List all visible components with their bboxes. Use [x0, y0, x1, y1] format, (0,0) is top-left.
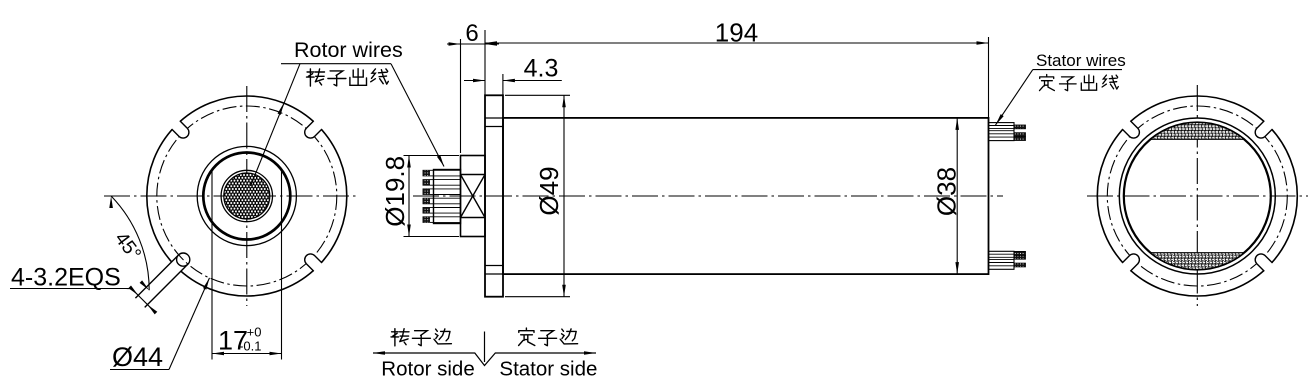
dim line dia38 — [956, 118, 958, 274]
svg-text:4-3.2EQS: 4-3.2EQS — [11, 264, 121, 292]
svg-text:Rotor side: Rotor side — [381, 358, 474, 381]
dim line 17 — [212, 353, 282, 355]
stator wire bundle 2 — [989, 251, 1015, 269]
node: outer flange circle — [147, 96, 347, 296]
flange step lines — [485, 117, 503, 119]
arrow dia19.8 top — [407, 156, 411, 168]
left view: front view of rotor-side flange — [10, 86, 357, 372]
underline dia44 — [110, 369, 169, 371]
label cjk stator-wires char 2 — [1060, 77, 1077, 91]
node: bore circle inner — [1124, 123, 1271, 270]
arrow dia44 — [203, 278, 210, 290]
arrow rotor wires 1 — [437, 155, 444, 167]
arrow rotor side left — [373, 351, 385, 355]
svg-text:4.3: 4.3 — [524, 55, 559, 83]
underline Stator wires — [1033, 69, 1122, 71]
node: inner ring circle — [221, 170, 272, 221]
label cjk rotor-side char 3 — [434, 329, 451, 344]
slot side lower — [145, 264, 188, 307]
arrow rotor wires 2 at outer circle — [278, 103, 284, 115]
arrow slot width lower — [148, 305, 158, 315]
svg-text:Rotor wires: Rotor wires — [294, 38, 403, 62]
svg-text:Ø19.8: Ø19.8 — [380, 156, 410, 227]
arrow dia19.8 bottom — [407, 225, 411, 237]
slot side upper — [135, 255, 178, 298]
svg-text:-0.1: -0.1 — [239, 339, 261, 354]
leader rotor wires to connector — [391, 64, 444, 167]
arrow stator side right — [584, 351, 596, 355]
divider vertical line — [484, 332, 486, 363]
slot feature 4-3.2EQS at 225deg — [142, 257, 185, 300]
arrow 17 left — [212, 352, 224, 356]
leader rotor wires to left view — [251, 64, 301, 186]
notches right view — [1255, 118, 1275, 138]
wire: vertical centerline right view — [1196, 85, 1198, 306]
arrow dia38 bottom — [955, 262, 959, 274]
underline Rotor wires — [281, 63, 391, 65]
underline 4-3.2EQS — [10, 288, 126, 290]
ext line dia49 bottom — [505, 296, 570, 298]
dim ext line 17 right — [281, 170, 283, 360]
ext line 6 left — [460, 39, 462, 153]
arrow 194 left — [485, 41, 497, 45]
dim line across slot — [132, 289, 155, 312]
rotor pin 2 — [423, 180, 434, 186]
cross diagonal 1 — [461, 175, 486, 218]
arrow 6 right — [485, 42, 497, 46]
ext line 6/194/4.3 — [484, 30, 486, 95]
svg-text:Ø38: Ø38 — [932, 167, 962, 216]
svg-text:Stator wires: Stator wires — [1036, 51, 1126, 70]
label cjk stator-side char 3 — [560, 329, 577, 344]
ext line dia19.8 bottom — [404, 236, 460, 238]
rotor pin 3 — [423, 189, 434, 195]
label cjk rotor-side char 1 — [391, 329, 409, 346]
arrow 194 right — [977, 41, 989, 45]
shaft block with cross — [461, 156, 486, 237]
dim line 4.3 tail right — [503, 80, 562, 82]
dim line 194 — [485, 42, 989, 44]
rotor pin 6 — [423, 217, 434, 223]
rotor connector body — [434, 170, 461, 224]
connector wire lines — [434, 169, 461, 171]
dim line 6 — [447, 43, 499, 45]
node: bore circle outer — [1119, 118, 1275, 274]
dim line dia19.8 — [408, 156, 410, 237]
leader 4-3.2EQS — [126, 288, 132, 290]
label cjk rotor-side char 2 — [412, 331, 430, 346]
rotor pin 4 — [423, 198, 434, 204]
notch top-right — [305, 118, 325, 138]
node: wire bundle hatched circle — [224, 173, 270, 219]
cross diagonal 2 — [461, 175, 486, 218]
main cylinder body — [503, 118, 989, 274]
svg-text:6: 6 — [465, 20, 478, 47]
notch top-left — [169, 118, 189, 138]
arrow stator wires — [996, 114, 1004, 125]
right view: stator-side front view — [1087, 85, 1308, 306]
svg-text:+0: +0 — [247, 325, 262, 340]
label cjk rotor-wires char 3 — [350, 69, 367, 86]
shaft block lower line — [461, 217, 486, 219]
arrow dia49 top — [562, 95, 566, 107]
arrow 4.3 right — [503, 79, 515, 83]
arrow 17 right — [270, 352, 282, 356]
ext line 194 right — [988, 37, 990, 117]
wire: centerline middle view — [413, 195, 1003, 197]
stator wire bundle 1 — [989, 123, 1015, 141]
shaft block upper line — [461, 174, 486, 176]
arrow 45 arc bottom — [140, 280, 150, 290]
node: circle d99 — [197, 146, 296, 245]
svg-text:194: 194 — [715, 18, 758, 48]
rotor/stator side divider label — [373, 332, 597, 381]
node: outer circle right view — [1097, 96, 1297, 296]
dim line 4.3 tail left — [464, 80, 485, 82]
dim line dia49 — [563, 95, 565, 296]
label cjk rotor-wires char 1 — [307, 69, 325, 86]
label cjk stator-wires char 1 — [1040, 75, 1055, 91]
label cjk stator-side char 2 — [539, 331, 557, 346]
rotor pin 5 — [423, 208, 434, 214]
label cjk stator-side char 1 — [519, 328, 535, 345]
ext line 4.3 right — [502, 74, 504, 95]
hatched segment top — [1151, 122, 1245, 139]
wire: horizontal centerline left view — [104, 195, 357, 197]
arrow dia49 bottom — [562, 285, 566, 297]
dim arc 45deg — [111, 196, 149, 290]
dim ext line 17 left — [211, 170, 213, 360]
svg-text:Ø44: Ø44 — [112, 342, 163, 372]
flange plate — [485, 95, 503, 296]
arrow dia38 top — [955, 118, 959, 130]
ext line dia49 top — [505, 94, 570, 96]
label cjk rotor-wires char 2 — [328, 71, 346, 86]
label cjk rotor-wires char 4 — [371, 69, 389, 84]
node: thick circle — [203, 153, 290, 240]
svg-text:Ø49: Ø49 — [534, 166, 564, 215]
arrow 4.3 left — [473, 79, 485, 83]
svg-text:Stator side: Stator side — [499, 358, 597, 381]
label cjk stator-wires char 3 — [1081, 75, 1096, 90]
leader stator wires — [996, 70, 1033, 126]
label cjk stator-wires char 4 — [1102, 75, 1118, 89]
wire: horizontal centerline right view — [1087, 195, 1308, 197]
arrow 6 left — [449, 42, 461, 46]
arrow slot width upper — [128, 286, 138, 296]
ext line dia19.8 top — [404, 155, 460, 157]
middle view: side view of slip ring body — [251, 18, 1026, 297]
rotor pin 1 — [423, 170, 434, 176]
hatched segment bottom — [1151, 253, 1245, 270]
wire: vertical centerline left view — [246, 86, 248, 306]
leader dia44 — [169, 278, 210, 370]
arrow 45 arc top — [109, 196, 113, 208]
node: bolt circle right view — [1107, 106, 1287, 286]
node: bolt circle dash-dot r90 — [157, 106, 337, 286]
notch bottom-right — [305, 254, 325, 274]
slot inner end circle — [177, 253, 190, 266]
